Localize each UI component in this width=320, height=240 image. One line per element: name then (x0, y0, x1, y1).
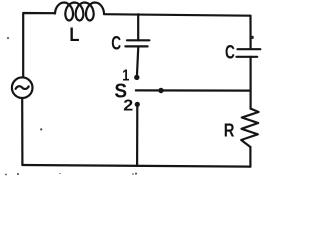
switch contact 2 (135, 102, 140, 107)
wire top (104, 14, 251, 16)
AC source sine (16, 86, 29, 89)
svg-text:2: 2 (123, 96, 133, 114)
svg-text:C: C (225, 41, 235, 63)
wire left-top (23, 13, 55, 77)
svg-text:C: C (111, 32, 121, 54)
capacitor C right bottom plate (237, 56, 258, 58)
wire mid branch upper (137, 14, 139, 40)
AC source circle (12, 77, 33, 98)
svg-text:1: 1 (122, 67, 129, 85)
wire right upper (249, 16, 251, 49)
wire mid to contact 1 (137, 46, 138, 74)
switch contact 1 (134, 75, 139, 80)
wire right lower (249, 147, 251, 167)
wire mid branch lower (136, 107, 138, 166)
switch pivot junction (158, 88, 163, 93)
resistor R zigzag (241, 109, 258, 147)
wire left lower (21, 98, 23, 165)
svg-text:L: L (69, 24, 79, 45)
switch S arm (136, 89, 251, 91)
wire right mid (250, 57, 252, 109)
svg-text:R: R (224, 120, 235, 141)
inductor L (55, 3, 104, 21)
capacitor C mid bottom plate (125, 45, 147, 47)
wire bottom (22, 165, 250, 167)
capacitor C mid top plate (127, 39, 149, 41)
capacitor C right top plate (238, 48, 261, 50)
